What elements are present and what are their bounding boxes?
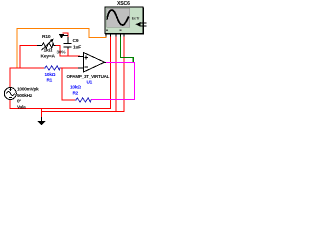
- svg-text:R1: R1: [47, 78, 53, 83]
- svg-text:1uF: 1uF: [73, 44, 81, 50]
- svg-text:OPAMP_3T_VIRTUAL: OPAMP_3T_VIRTUAL: [67, 74, 110, 79]
- svg-text:500kHz: 500kHz: [17, 93, 33, 98]
- svg-text:Vala: Vala: [17, 104, 26, 109]
- svg-text:C9: C9: [73, 38, 79, 44]
- svg-text:XSC6: XSC6: [117, 1, 130, 7]
- svg-text:R2: R2: [73, 91, 79, 96]
- svg-text:0°: 0°: [17, 99, 21, 104]
- svg-text:Ex Tr: Ex Tr: [132, 17, 140, 21]
- svg-text:Key=A: Key=A: [41, 53, 56, 59]
- svg-text:10kΩ: 10kΩ: [70, 85, 81, 90]
- svg-text:U1: U1: [87, 80, 93, 85]
- svg-text:R10: R10: [42, 34, 51, 40]
- svg-text:30%: 30%: [57, 49, 67, 54]
- svg-text:10kΩ: 10kΩ: [45, 72, 56, 77]
- svg-text:1000mVpk: 1000mVpk: [17, 87, 39, 92]
- svg-text:1kΩ: 1kΩ: [44, 47, 53, 53]
